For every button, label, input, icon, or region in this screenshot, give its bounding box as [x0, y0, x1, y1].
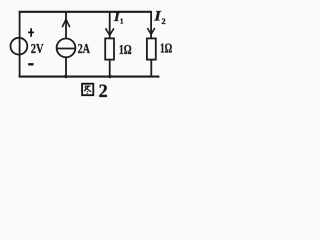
resistor R2 (1Ω) — [147, 38, 156, 59]
svg-text:I: I — [153, 9, 161, 25]
current direction arrow of source — [62, 19, 70, 27]
svg-text:2: 2 — [99, 82, 108, 101]
wire: branch 2 bottom — [150, 60, 152, 77]
wire: top rail — [19, 11, 152, 13]
wire: branch 1 top — [109, 12, 111, 39]
svg-text:1Ω: 1Ω — [160, 42, 172, 57]
wire: current source top stub — [65, 12, 67, 39]
wire: branch 2 top with corner — [150, 12, 152, 39]
current arrow I2 — [147, 28, 154, 34]
wire: bottom rail — [19, 76, 160, 78]
current arrow I1 — [106, 28, 114, 35]
voltage source (2V) — [11, 38, 28, 55]
junction: branch 1 at bottom rail — [108, 75, 111, 78]
svg-text:2: 2 — [162, 17, 166, 26]
svg-text:1Ω: 1Ω — [119, 43, 132, 58]
wire: current source bottom stub — [65, 57, 67, 77]
wire: left branch through voltage source — [19, 11, 21, 77]
label I1 — [113, 10, 124, 25]
polarity - — [28, 63, 33, 65]
svg-text:2V: 2V — [31, 42, 44, 57]
label I2 — [153, 9, 165, 26]
current source (2A) — [57, 39, 76, 58]
junction: current source at bottom rail — [64, 75, 67, 78]
svg-text:2A: 2A — [78, 42, 91, 57]
polarity + — [28, 28, 34, 37]
svg-text:1: 1 — [120, 16, 124, 25]
wire: branch 1 bottom — [109, 60, 111, 77]
resistor R1 (1Ω) — [105, 38, 114, 59]
caption 图 2 — [82, 82, 108, 102]
